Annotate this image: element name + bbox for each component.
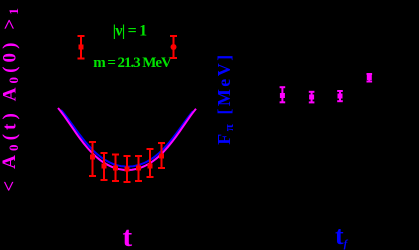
red data point t1 with error bar xyxy=(78,36,85,59)
red data point t3 with error bar xyxy=(101,153,108,180)
right plot y-axis label "F_pi [MeV]" xyxy=(214,52,236,145)
red data point t7 with error bar xyxy=(147,149,154,177)
magenta data point 2 with error bar xyxy=(309,92,315,103)
svg-text:m = 21.3 MeV: m = 21.3 MeV xyxy=(93,55,172,71)
svg-text:< A0(t) A0(0) >1: < A0(t) A0(0) >1 xyxy=(0,4,20,192)
red data point t6 with error bar xyxy=(135,156,142,181)
magenta data point 4 with error bar xyxy=(367,74,373,82)
magenta data point 1 with error bar xyxy=(280,87,286,102)
svg-text:|ν| = 1: |ν| = 1 xyxy=(113,23,148,40)
red data point t9 with error bar xyxy=(170,36,177,58)
red data point t5 with error bar xyxy=(124,156,131,182)
magenta data point 3 with error bar xyxy=(337,91,343,101)
magenta fit curve xyxy=(58,108,196,170)
blue fit curve xyxy=(61,110,193,167)
red data point t2 with error bar xyxy=(89,142,96,176)
svg-text:t: t xyxy=(122,221,132,250)
red data point t4 with error bar xyxy=(112,155,119,182)
left plot y-axis label "< A0(t) A0(0) >1" xyxy=(0,4,20,192)
red data point t8 with error bar xyxy=(158,143,165,168)
